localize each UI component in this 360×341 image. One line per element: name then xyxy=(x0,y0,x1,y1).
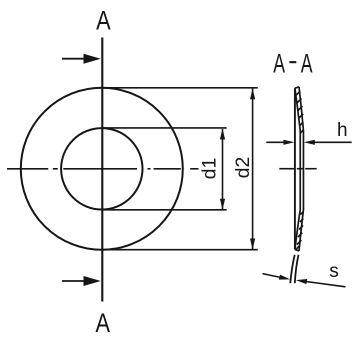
horizontal centerline of washer (dash-dot) xyxy=(7,168,199,170)
s dimension right leader + arrow xyxy=(296,278,346,287)
s dimension left leader + arrow xyxy=(263,274,291,282)
broken-out washer end piece (below break) xyxy=(290,255,298,283)
h dimension right leader + arrow xyxy=(304,140,352,145)
arrowheads of d1 dimension xyxy=(220,128,225,139)
outer circle d2 xyxy=(21,88,183,250)
dash of A-A title xyxy=(289,61,296,63)
dimension line d2 xyxy=(252,88,254,249)
svg-text:A: A xyxy=(96,6,111,36)
hatching of top cut area xyxy=(296,91,304,133)
svg-text:s: s xyxy=(329,261,339,282)
h dimension left leader + arrow xyxy=(266,140,294,145)
extension line d2 bottom xyxy=(103,249,258,251)
centerline of section (dash-dot) xyxy=(279,168,316,170)
section plane line A-A (vertical) xyxy=(101,38,103,302)
svg-text:h: h xyxy=(337,120,348,141)
washer section outline xyxy=(295,87,304,251)
section arrow bottom xyxy=(62,276,101,286)
svg-text:A: A xyxy=(301,47,313,78)
top end edge xyxy=(295,87,299,88)
svg-text:A: A xyxy=(273,47,285,78)
section arrow top (cutting plane view direction) xyxy=(62,54,101,64)
left silhouette chord line xyxy=(294,88,296,249)
outer (convex) edge of bowed strip xyxy=(299,87,303,251)
bottom end edge xyxy=(295,249,299,251)
inner (concave) edge of bowed strip xyxy=(295,88,300,249)
arrowheads of d2 dimension xyxy=(250,88,255,99)
dimension line d1 xyxy=(222,129,224,209)
svg-text:d2: d2 xyxy=(232,157,254,179)
svg-text:d1: d1 xyxy=(198,158,220,180)
svg-text:A: A xyxy=(96,309,111,339)
label A-A title xyxy=(273,47,313,78)
hatching of bottom cut area xyxy=(296,212,303,250)
extension line d1 top xyxy=(103,127,227,129)
inner circle d1 (washer hole) xyxy=(61,128,142,209)
extension line d2 top xyxy=(103,87,258,89)
extension line d1 bottom xyxy=(103,209,227,211)
